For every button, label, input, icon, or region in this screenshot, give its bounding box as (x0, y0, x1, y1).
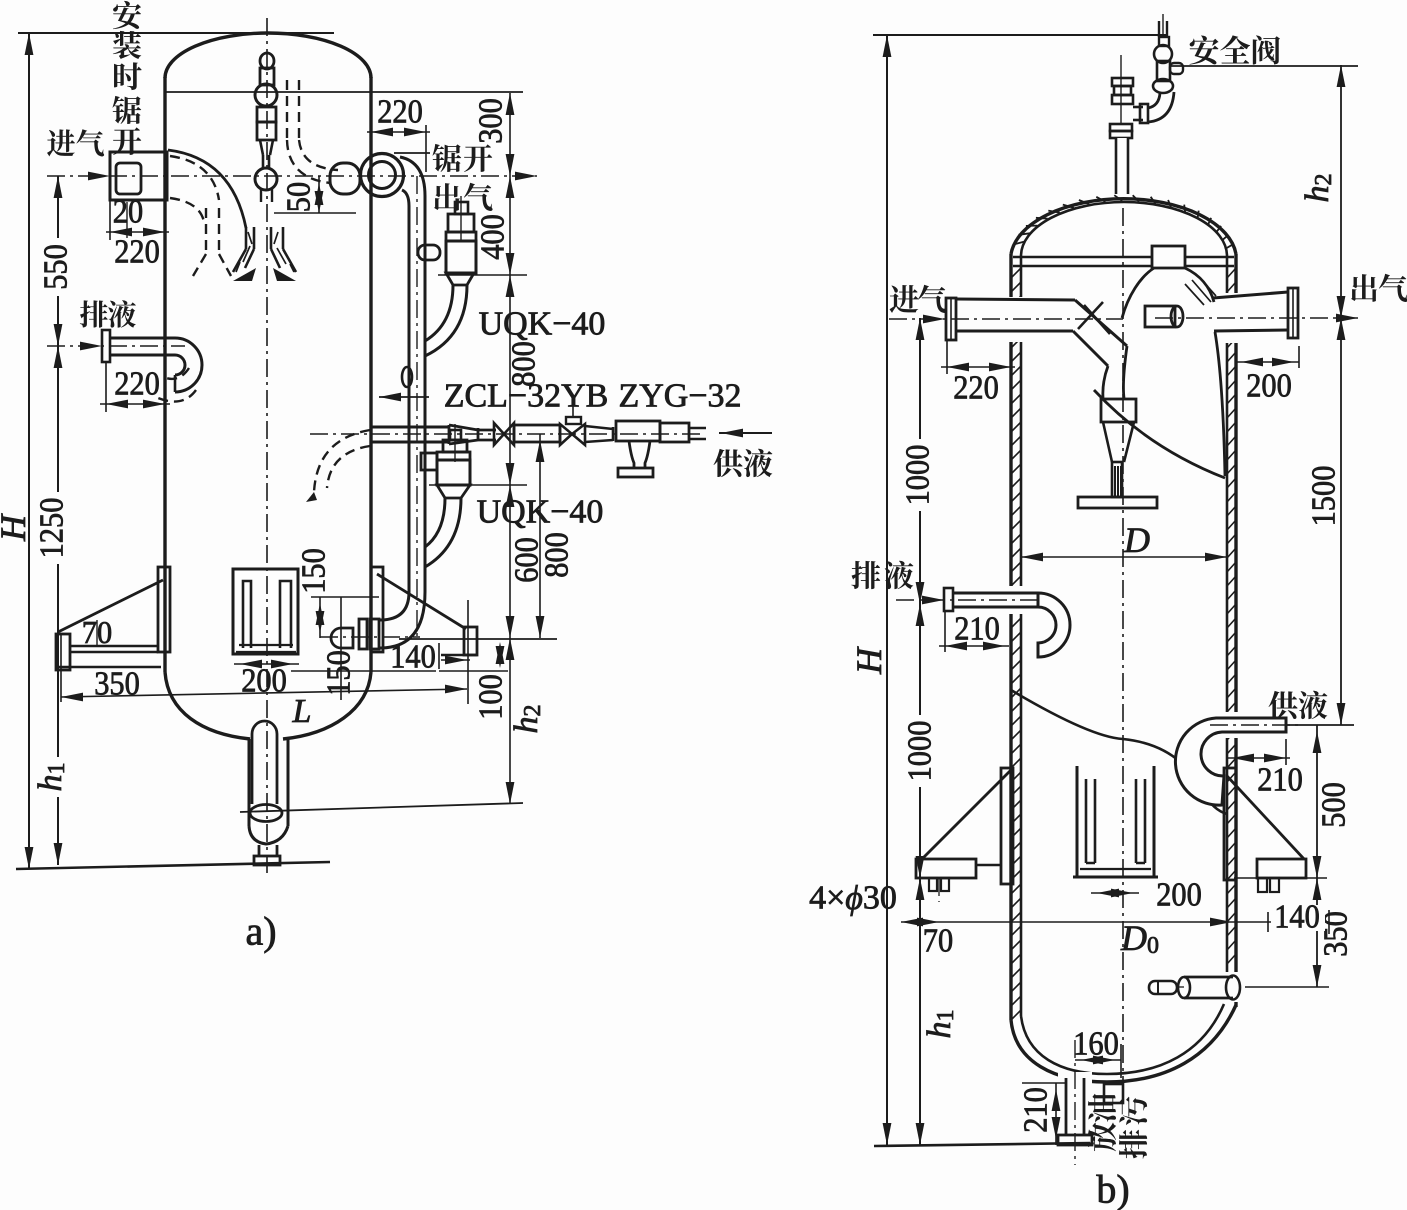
supply internal dashed elbow (a) (314, 430, 370, 492)
cyclone lower swoop (b) (1094, 390, 1225, 478)
inlet nozzle (b): flange (946, 298, 956, 340)
svg-text:70: 70 (923, 923, 953, 960)
label 140 (b) (1271, 905, 1325, 931)
float valve taper (260, 140, 263, 155)
svg-text:H: H (849, 646, 889, 675)
svg-text:300: 300 (473, 98, 510, 144)
vessel a shell: left wall (163, 77, 166, 672)
D0 dim line (b) (901, 921, 1329, 923)
dim 150 upper (a) (311, 596, 379, 598)
drain centerline (b) (896, 599, 1040, 601)
svg-text:50: 50 (281, 182, 318, 212)
safety valve 安全阀 stack on dome (1112, 78, 1133, 86)
dim 200 basket (b) (1091, 892, 1139, 894)
detached plug cylinder (1149, 981, 1177, 994)
svg-text:140: 140 (390, 639, 436, 676)
ref line y=638 (a) (399, 638, 557, 640)
float valve lower ball on gas centerline (255, 168, 277, 190)
supply centerline (b) (1210, 724, 1300, 726)
svg-text:100: 100 (473, 674, 510, 720)
white gap in wall for outlet (b) (1222, 293, 1244, 343)
bottom nozzle reducer stem and flange (258, 845, 261, 857)
svg-text:1000: 1000 (900, 445, 937, 506)
inlet nozzle (a) flange (110, 152, 167, 200)
dim H line (b) (886, 35, 888, 1145)
leader arrow to wall (379, 396, 429, 398)
right chain 500/350 (b) (1316, 725, 1318, 987)
drain side stub (1104, 1084, 1123, 1103)
safety valve outlet stub (1133, 106, 1143, 109)
ref line y=878 (b) (1234, 877, 1327, 879)
svg-text:L: L (292, 693, 312, 730)
h2 / 1500 chain (b) (1340, 65, 1342, 725)
bottom nozzle ellipse (250, 805, 282, 822)
outlet nozzle (b) pipe (1213, 292, 1288, 298)
internal funnel (b) (1103, 422, 1134, 462)
support bracket right (a) (371, 567, 383, 652)
vessel b: inner walls (1020, 258, 1023, 1016)
float valve body (257, 107, 276, 122)
vessel b: outer walls (1009, 254, 1012, 1020)
distributor hatch (236, 232, 294, 272)
svg-text:500: 500 (1316, 782, 1353, 828)
svg-text:800: 800 (506, 341, 543, 387)
UQK-40 upper elbow to pipe (425, 285, 467, 356)
label line to 锯开 (394, 152, 430, 154)
internal basket (b) (1077, 766, 1154, 877)
inlet internal dashed downcomer (205, 208, 207, 254)
inlet internal solid curve to distributor (168, 150, 246, 228)
label 排液 (a) (80, 300, 108, 327)
supply J-hook (b) (1175, 718, 1286, 805)
inlet pipe miter joint X (b) (1075, 300, 1127, 346)
dim 150 lower (a) (291, 670, 436, 672)
liquid supply line (a) centerline (310, 433, 700, 435)
bottom elbow cap (331, 628, 353, 648)
bottom drain (b): white gap (1058, 1072, 1092, 1138)
supply ref line (1286, 724, 1354, 726)
supply nozzle 供液 (b): white gap in wall (1222, 712, 1242, 738)
vessel b bottom head outer (1011, 1005, 1236, 1082)
h2 top ref line (1170, 65, 1358, 67)
vessel b centerline (1122, 208, 1124, 1092)
svg-text:b): b) (1096, 1167, 1129, 1210)
vessel b: dome inner (1021, 202, 1227, 256)
discharge collar (1153, 79, 1173, 93)
supply reducer cone (449, 425, 478, 444)
ref line y=805 ellipse line (a) (240, 803, 523, 812)
distributor skirt (233, 249, 246, 272)
left dimension chain line (a): 550 / 1250 / h1 (57, 176, 59, 865)
drain nozzle 排液 (b): flange (944, 588, 953, 611)
nozzle centerline dash (1176, 986, 1184, 988)
internal box (b) (1101, 399, 1136, 422)
outlet elbow side cap (330, 163, 360, 194)
wall hatch ticks left (1011, 268, 1021, 1020)
svg-text:UQK−40: UQK−40 (479, 306, 606, 343)
label 550 (42, 238, 70, 296)
drain pipe (b) (953, 592, 1038, 595)
svg-text:200: 200 (241, 663, 287, 700)
side nozzle cylinder (1184, 976, 1233, 979)
internal small cylinder (b) (1145, 306, 1175, 327)
valve ZCL-32YB bowtie (494, 423, 514, 445)
drain nozzle 排液 (a): flange (102, 330, 110, 362)
label 供液 (b) (1269, 691, 1298, 719)
svg-text:220: 220 (953, 370, 999, 407)
baseline (b) (874, 1143, 1090, 1146)
UQK-40 upper side cap (418, 245, 440, 260)
upper float controller UQK-40 (a): head (455, 202, 468, 214)
dim 210 supply (b) (1285, 739, 1287, 765)
label 供液 (a) (714, 449, 743, 477)
label h1 (36, 757, 64, 797)
dim 210 (b bottom) (1022, 1082, 1066, 1084)
drain centerline (1074, 1040, 1076, 1165)
label 放油排污 (drain oil / blowdown), rotated (1088, 1123, 1116, 1152)
drain dashed swirl (a) (158, 390, 196, 402)
ref line y=275 (a) (438, 274, 527, 276)
drain pipe (a) (110, 337, 175, 340)
outlet centerline with arrow (1155, 317, 1358, 319)
cut-open gas outlet nozzle (a): flange circle (361, 154, 404, 197)
white gap in wall for drain (b) (1004, 586, 1024, 614)
svg-text:210: 210 (1257, 762, 1303, 799)
support bracket left (b) (1001, 768, 1013, 884)
svg-text:220: 220 (114, 366, 160, 403)
label 1250 (38, 492, 66, 564)
drain J-hook (b) (1038, 593, 1070, 657)
inlet centerline (b) (889, 318, 1123, 320)
label 出气 (b) (1351, 274, 1377, 302)
internal basket strainer (a) (233, 569, 298, 654)
anchor bolts right (b) (1258, 878, 1267, 892)
supply end stub (689, 427, 706, 430)
side nozzle lower right (b): white gap (1177, 972, 1243, 1002)
outer tube rounded bottom (249, 826, 288, 844)
vessel a top tangent reference line (165, 91, 523, 93)
outlet pipe elbow down (a) (400, 157, 425, 196)
vessel b: dome outer (1011, 199, 1236, 254)
label 安全阀 (1189, 35, 1218, 64)
lower float controller UQK-40 (a) (450, 430, 461, 440)
label 锯开出气 (cut open / gas outlet) (432, 144, 461, 172)
wall hatch ticks right (1227, 268, 1236, 964)
ref line y=485 (a) (429, 484, 527, 486)
distributor funnel (a): legs (245, 227, 248, 249)
taper to regulator (585, 426, 613, 442)
svg-text:1500: 1500 (1306, 466, 1343, 527)
dome hatch ticks (1014, 195, 1233, 249)
dim H vertical line (a) (28, 33, 30, 869)
right dimension chain (a): 300/400/800/600 line (509, 93, 511, 804)
svg-text:210: 210 (1018, 1087, 1055, 1133)
inlet internal dashed elbow (a) (170, 156, 219, 200)
bracket hypotenuse (58, 580, 163, 632)
discharge side stub (1170, 63, 1183, 74)
drain centerline with arrow (47, 345, 185, 347)
outlet pipe bottom elbow (a) (380, 592, 425, 648)
svg-text:ZYG−32: ZYG−32 (618, 378, 741, 415)
dim 220 (b) (946, 339, 948, 374)
pipe barrel (514, 425, 560, 442)
cyclone right lower curve (b) (1215, 332, 1225, 476)
ref line y=670 (a) (439, 670, 508, 672)
feed lines down to box (1103, 366, 1108, 398)
bracket base lines (70, 645, 158, 647)
discharge elbow (1148, 92, 1174, 122)
scoop hatch (1185, 278, 1216, 305)
regulator neck and foot (629, 441, 634, 468)
small side flange on pipe (402, 367, 412, 387)
label 排液 (b) (851, 561, 880, 589)
ext line left foot (60, 634, 62, 702)
svg-text:220: 220 (377, 94, 423, 131)
inlet pipe (b) (956, 299, 1075, 300)
girth flange lines (b) (1013, 256, 1234, 259)
top reference line (b) (873, 34, 1168, 36)
distributor skirt feet (233, 268, 256, 281)
svg-text:350: 350 (94, 666, 140, 703)
second chain 800 (a) (539, 434, 541, 638)
bracket foot plate (56, 634, 70, 670)
label 进气 (gas inlet) (a) (47, 129, 75, 156)
svg-text:H: H (0, 513, 33, 542)
drain J-bend (a) (175, 338, 202, 392)
svg-text:1250: 1250 (34, 498, 71, 559)
anchor bolts left (b) (929, 878, 937, 891)
svg-text:1000: 1000 (902, 721, 939, 782)
baseline ground line (a) (16, 862, 330, 869)
float valve assembly on centerline (a): top knob (260, 53, 274, 69)
float valve lower stem (260, 189, 262, 202)
internal cyclone bell left (b) (1122, 268, 1154, 318)
vessel a bottom head left (165, 672, 250, 739)
vessel a bottom head right (283, 672, 371, 739)
dim D (b) (1021, 556, 1227, 558)
svg-text:200: 200 (1246, 368, 1292, 405)
internal cyclone bell right (b) (1185, 268, 1214, 302)
svg-text:150: 150 (321, 650, 358, 696)
outer tube (248, 739, 251, 826)
svg-text:a): a) (245, 909, 276, 954)
outlet drop pipe (a) (408, 206, 411, 592)
dim 210 drain (b) (944, 611, 946, 652)
inlet/outlet centerline y=176 with flow arrows (47, 175, 537, 177)
overall width dim L line (61, 689, 467, 697)
left chain (b): 1000/1000/h1 (919, 318, 921, 1145)
label 安装时锯开 (cut open when installing), vertical column (113, 1, 141, 29)
support bracket left (a): wall plate (158, 567, 170, 652)
bottom elbow flange bars (370, 619, 379, 649)
svg-text:150: 150 (296, 548, 333, 594)
drain pipe (b bottom) (1065, 1078, 1068, 1135)
girth center fitting (1152, 246, 1185, 268)
support bracket right (b) (1224, 768, 1236, 880)
svg-text:400: 400 (475, 214, 512, 260)
supply pipe walls (a) (371, 426, 449, 429)
drain flange (1058, 1135, 1092, 1145)
label 进气 (b) (890, 285, 919, 313)
svg-text:210: 210 (954, 611, 1000, 648)
dim 200 basket (a) (234, 663, 299, 665)
liquid break wavy line (b) (1011, 690, 1227, 814)
white gap in wall for inlet (b) (1004, 297, 1024, 342)
svg-text:800: 800 (539, 532, 576, 578)
svg-text:20: 20 (113, 194, 143, 231)
basket inner slots (243, 581, 251, 648)
pressure regulator ZYG-32 body (616, 421, 660, 441)
discharge ball (1154, 45, 1172, 63)
vessel a shell: right wall (369, 77, 372, 672)
outlet flange (b) (1288, 288, 1298, 338)
svg-text:200: 200 (1156, 877, 1202, 914)
svg-text:4×ϕ30: 4×ϕ30 (809, 880, 897, 917)
供液 (liquid supply) arrow (a) (719, 432, 772, 434)
dim 50 (a) (274, 212, 356, 214)
outlet pipe centerline (416, 176, 418, 640)
float valve upper ball (255, 84, 277, 106)
top reference line (top of vessel a) (18, 32, 334, 34)
second valve bowtie with stem (566, 417, 581, 424)
vessel a top dome (165, 33, 371, 78)
vessel a vertical centerline (266, 18, 268, 876)
bottom nozzle centerline (320, 636, 420, 638)
gas outlet internal dashed riser (a) (286, 80, 288, 140)
ref line y=987 (b) (1245, 986, 1329, 988)
bottom outlet nozzle (a): inner suction pipe with rounded top (252, 721, 277, 734)
svg-text:550: 550 (38, 244, 75, 290)
svg-text:220: 220 (114, 234, 160, 271)
svg-text:D: D (1123, 520, 1150, 560)
dim 200 (b) (1298, 346, 1300, 368)
svg-text:140: 140 (1274, 899, 1320, 936)
vessel b bottom head inner (1021, 1004, 1224, 1074)
